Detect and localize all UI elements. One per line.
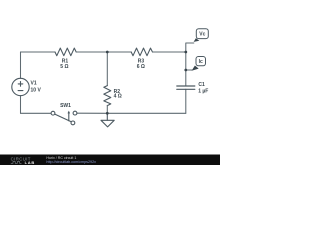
wire node A down to R2 <box>106 52 108 86</box>
wire node A to R3 <box>107 51 131 53</box>
svg-text:1 µF: 1 µF <box>198 88 208 94</box>
junction node B dot <box>184 51 187 54</box>
svg-text:Ic: Ic <box>199 59 203 65</box>
CircuitLab logo waveform <box>11 162 22 164</box>
switch SW1 <box>51 111 77 125</box>
probe Ic box <box>196 57 206 66</box>
wire top-left horizontal <box>21 51 56 53</box>
probe Vc elbow wire <box>186 43 194 52</box>
V1 plus sign <box>18 82 23 87</box>
switch SW1 arrowhead <box>68 111 71 114</box>
resistor R2 <box>104 86 111 106</box>
resistor R1 <box>55 48 76 56</box>
svg-text:Vc: Vc <box>199 32 205 38</box>
footer bar <box>0 155 220 166</box>
wire bottom to SW1 <box>21 112 52 114</box>
probe Ic stub wire <box>186 69 192 71</box>
junction dot ground node <box>106 112 109 115</box>
probe Vc box <box>196 29 208 39</box>
junction node A dot <box>106 51 109 54</box>
svg-text:http://circuitlab.com/cmps292x: http://circuitlab.com/cmps292x <box>46 160 96 164</box>
probe Ic pointer wedge <box>192 66 199 71</box>
ground <box>101 113 114 127</box>
svg-text:C1: C1 <box>198 82 205 88</box>
wire R3 to node B <box>153 51 186 53</box>
svg-text:V1: V1 <box>31 80 37 86</box>
svg-text:6 Ω: 6 Ω <box>137 64 145 70</box>
wire left vertical upper <box>20 52 22 78</box>
V1 minus sign <box>18 90 23 92</box>
voltage source V1 circle <box>12 78 29 95</box>
wire R2 to bottom <box>106 106 108 114</box>
svg-text:10 V: 10 V <box>31 87 42 93</box>
junction dot Ic tap <box>184 69 187 72</box>
wire C1 to bottom wire <box>185 89 187 113</box>
capacitor C1 plates <box>177 86 195 89</box>
wire node B down to C1 <box>185 52 187 86</box>
svg-text:LAB: LAB <box>25 160 35 165</box>
wire SW1 to ground node <box>77 112 107 114</box>
resistor R3 <box>131 48 152 56</box>
probe Vc pointer wedge <box>194 38 200 42</box>
wire R1 to node A <box>76 51 107 53</box>
wire left vertical lower <box>20 96 22 114</box>
svg-text:4 Ω: 4 Ω <box>114 94 122 100</box>
wire ground node to right corner <box>107 112 186 114</box>
svg-text:5 Ω: 5 Ω <box>60 64 68 70</box>
svg-text:SW1: SW1 <box>60 103 71 109</box>
